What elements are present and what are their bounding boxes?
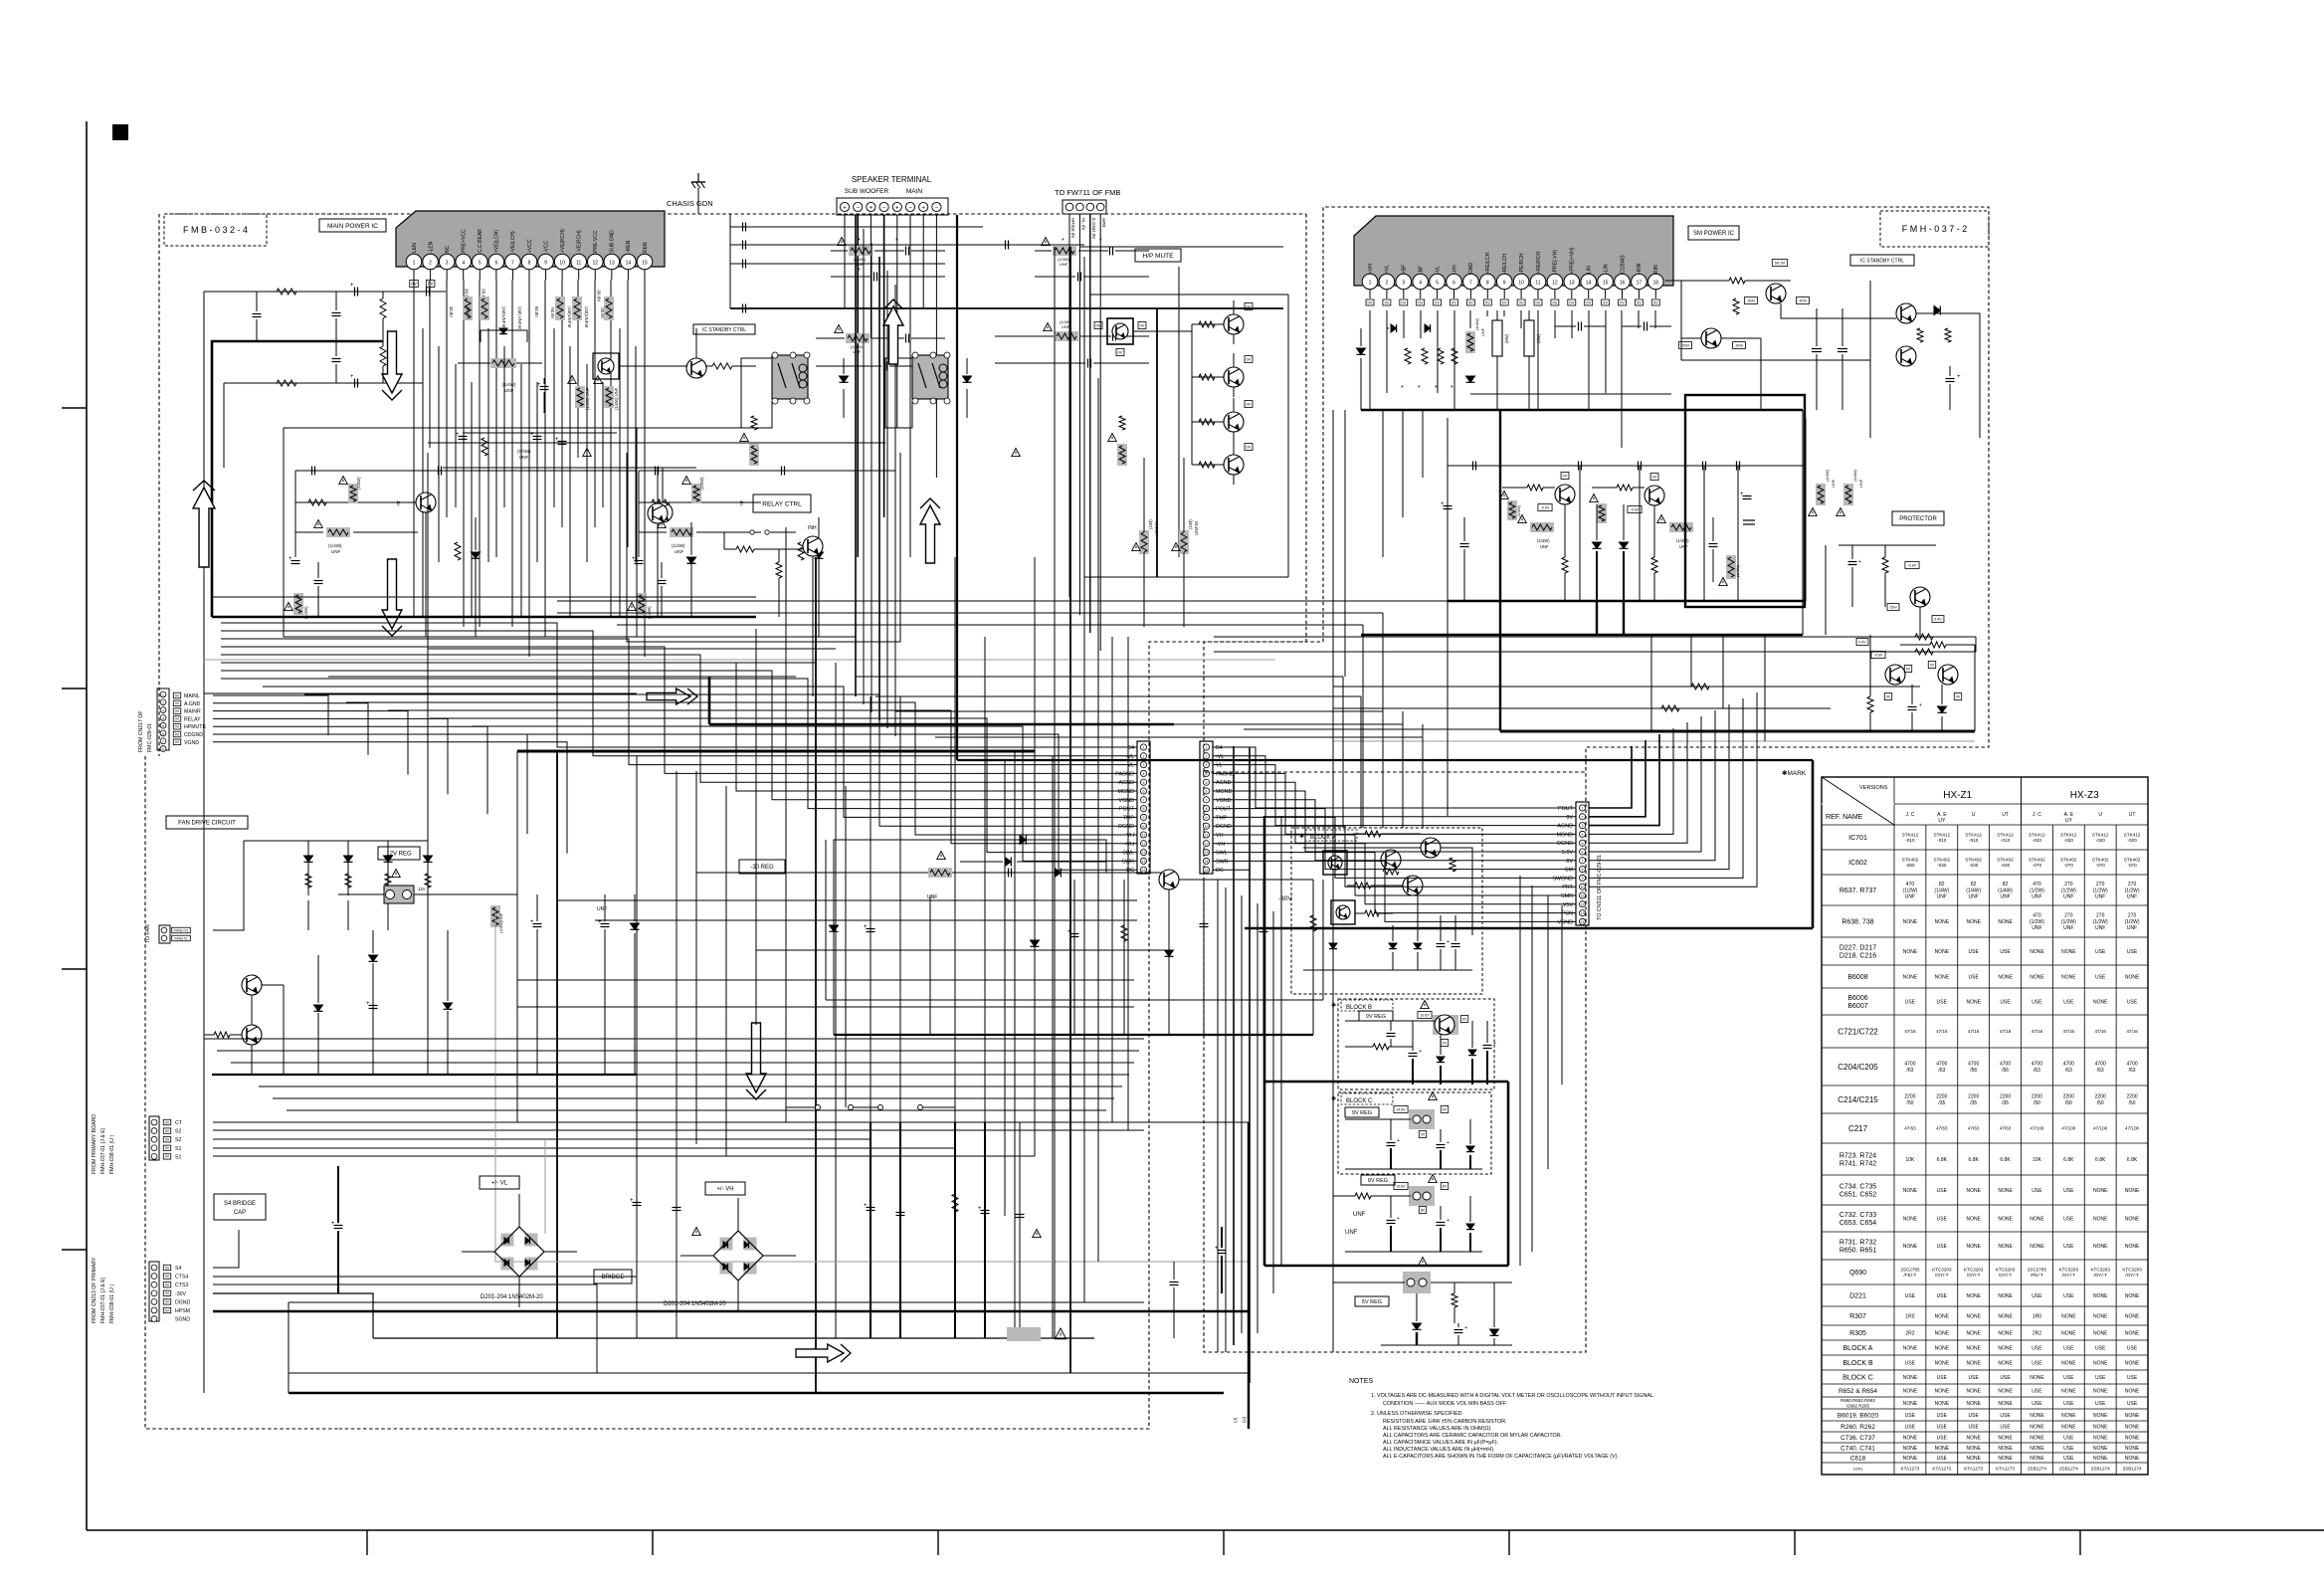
svg-text:USE: USE bbox=[2095, 974, 2106, 980]
svg-text:270: 270 bbox=[2128, 913, 2137, 919]
svg-text:10K: 10K bbox=[2033, 1157, 2042, 1163]
wire spk row3 bbox=[730, 263, 945, 265]
svg-text:NONE: NONE bbox=[2093, 1435, 2108, 1441]
svg-text:2SB1274: 2SB1274 bbox=[2059, 1467, 2078, 1472]
wire relay ctrl2 bbox=[724, 532, 736, 549]
svg-text:IC701: IC701 bbox=[1848, 835, 1867, 842]
IC602 pin 12 -PRE(-VH) bbox=[1547, 274, 1563, 290]
resistor tr1 bbox=[1729, 278, 1745, 284]
svg-text:NONE: NONE bbox=[1903, 1446, 1918, 1452]
wire IC602 pin18 drop bbox=[1654, 310, 1656, 328]
svg-text:USE: USE bbox=[1969, 1424, 1980, 1430]
svg-text:KTC3203: KTC3203 bbox=[1932, 1267, 1952, 1272]
resistor -30 r3 bbox=[1121, 925, 1127, 941]
wire hp h1 bbox=[1157, 307, 1224, 309]
wire 1W 1 bbox=[1143, 458, 1145, 532]
wire h y435 bbox=[463, 432, 617, 434]
wire blkC h bbox=[1345, 1118, 1411, 1120]
capacitor br2 bbox=[673, 1207, 681, 1209]
svg-text:DGND: DGND bbox=[1557, 841, 1573, 847]
wire mesh h4 bbox=[517, 636, 856, 638]
primary label S2 bbox=[163, 1128, 170, 1133]
wire mid h with res b bbox=[1214, 651, 1976, 653]
svg-text:+: + bbox=[331, 1221, 335, 1227]
transistor Q202 bbox=[686, 358, 706, 378]
wire thick bus y728 bbox=[709, 723, 1174, 726]
svg-text:NONE: NONE bbox=[1998, 1293, 2013, 1299]
legend grey box bbox=[1007, 1327, 1041, 1341]
zobel R+C right bbox=[1053, 246, 1076, 256]
IC602 pin 1 +VH bbox=[1362, 274, 1378, 290]
wire IC701 pin12 drop bbox=[594, 280, 596, 527]
svg-text:−: − bbox=[882, 205, 886, 211]
svg-text:0V: 0V bbox=[175, 740, 180, 744]
connector CN213 strip bbox=[149, 1262, 159, 1321]
svg-text:UNF: UNF bbox=[927, 894, 937, 900]
wire midband v6 bbox=[1447, 601, 1449, 816]
svg-text:12: 12 bbox=[1205, 842, 1209, 846]
resistor cell L r4 grey bbox=[293, 593, 303, 615]
svg-text:5: 5 bbox=[1206, 781, 1208, 785]
wire stair right 2 bbox=[1250, 756, 1576, 817]
svg-text:NONE: NONE bbox=[2061, 974, 2076, 980]
ecap blkB 3 bbox=[1483, 1045, 1492, 1047]
svg-text:47/16: 47/16 bbox=[2063, 1029, 2075, 1034]
wire bus S2b bbox=[213, 1138, 871, 1140]
wire -30 mid bbox=[756, 949, 1169, 951]
svg-text:MGND: MGND bbox=[1557, 832, 1574, 838]
capacitor blkB cap bbox=[1387, 1033, 1396, 1035]
svg-text:3: 3 bbox=[1143, 763, 1145, 767]
diode p2 bbox=[1391, 324, 1397, 332]
wire zobel2 r bbox=[995, 335, 1054, 337]
svg-text:NONE: NONE bbox=[1935, 1446, 1950, 1452]
svg-text:USE: USE bbox=[2095, 949, 2106, 955]
resistor hp mute 1 bbox=[1199, 321, 1215, 327]
ecap 8v 2 bbox=[1437, 1222, 1446, 1224]
wire QX1 c bbox=[662, 468, 664, 502]
svg-text:0V: 0V bbox=[165, 1137, 170, 1141]
svg-text:NONE: NONE bbox=[1966, 1188, 1981, 1194]
wire blkB h bbox=[1345, 1020, 1435, 1022]
svg-text:NONE: NONE bbox=[1903, 1345, 1918, 1351]
wire middrop 1 bbox=[695, 771, 697, 1144]
svg-text:(1/4W): (1/4W) bbox=[356, 477, 361, 490]
frame tick left 2 bbox=[62, 688, 87, 690]
svg-text:CCBIAS: CCBIAS bbox=[1620, 255, 1626, 274]
svg-text:0V: 0V bbox=[175, 701, 180, 705]
frame tick bottom 6 bbox=[1794, 1530, 1796, 1555]
svg-text:PCN: PCN bbox=[1562, 911, 1573, 917]
svg-text:UNF: UNF bbox=[1969, 894, 1979, 900]
svg-text:5: 5 bbox=[1582, 842, 1584, 846]
board FMH-037-2 label box bbox=[1880, 211, 1989, 247]
IC701 pin 14 -REN bbox=[621, 254, 637, 270]
transistor blkA q3 bbox=[1403, 876, 1423, 895]
svg-text:0V: 0V bbox=[175, 709, 180, 713]
zener -30 bbox=[830, 925, 839, 931]
ecap 12v b bbox=[601, 923, 610, 925]
svg-text:UNF: UNF bbox=[1831, 479, 1836, 488]
wire hp mute c 2 bbox=[1233, 353, 1235, 367]
svg-text:NONE: NONE bbox=[1998, 1456, 2013, 1462]
svg-text:(U): (U) bbox=[1242, 1416, 1247, 1423]
wire spk vleft bbox=[729, 214, 731, 308]
svg-text:✱: ✱ bbox=[1331, 1095, 1336, 1102]
wire IC701 pin4 drop bbox=[463, 280, 465, 627]
resistor cell R r2 grey bbox=[691, 484, 701, 503]
wire btr 4 bbox=[1519, 876, 1521, 1266]
svg-text:2200: 2200 bbox=[2095, 1094, 2106, 1100]
wire longv 3 bbox=[556, 751, 558, 1338]
label 9V REG B bbox=[1359, 1011, 1393, 1021]
strip2 lead -VL bbox=[1213, 755, 1250, 757]
svg-text:MGND: MGND bbox=[1216, 789, 1233, 795]
svg-text:+VCC: +VCC bbox=[527, 239, 533, 253]
IC main power IC body bbox=[396, 211, 665, 267]
capacitor C204 v bbox=[332, 312, 341, 314]
svg-text:-59V: -59V bbox=[1747, 297, 1756, 302]
svg-text:13: 13 bbox=[1142, 851, 1146, 855]
wire lowband h2 bbox=[217, 1050, 1139, 1052]
svg-text:NONE: NONE bbox=[2093, 1330, 2108, 1336]
svg-text:G201: G201 bbox=[1853, 1466, 1864, 1471]
ground chassis symbol bbox=[697, 173, 699, 182]
svg-text:-010: -010 bbox=[2001, 838, 2011, 843]
wire thick bus y755 bbox=[517, 750, 1035, 753]
svg-text:270: 270 bbox=[2064, 913, 2073, 919]
frame tick left 4 bbox=[62, 1249, 87, 1251]
svg-text:/63: /63 bbox=[1906, 1068, 1913, 1074]
wire mesh h6 bbox=[378, 662, 816, 664]
IC602 pin 7 GND bbox=[1463, 274, 1479, 290]
wire IC602 pin7 drop bbox=[1469, 310, 1471, 328]
svg-text:+/- VL: +/- VL bbox=[491, 1181, 508, 1187]
label 9V REG C bbox=[1345, 1107, 1379, 1117]
svg-text:NONE: NONE bbox=[1966, 1388, 1981, 1394]
wire cn311 right 1 bbox=[1589, 746, 1632, 808]
CN213 label HPSM bbox=[163, 1307, 170, 1312]
wire fan bottom bbox=[212, 1074, 637, 1076]
resistor fan base bbox=[214, 1032, 230, 1038]
wire cell R h535 bbox=[639, 531, 667, 533]
wire standby h3 bbox=[1665, 280, 1729, 282]
wire IC602 pin16 drop bbox=[1621, 310, 1623, 448]
wire rv 1 bbox=[1650, 635, 1652, 731]
zener p6 bbox=[1466, 376, 1475, 382]
smallbox prot f bbox=[1904, 666, 1911, 673]
svg-text:(1M) UNF.M: (1M) UNF.M bbox=[517, 306, 522, 329]
wire comb v9 bbox=[553, 328, 555, 507]
svg-text:-050: -050 bbox=[1905, 863, 1915, 868]
label S4 BRIDGE CAP box bbox=[214, 1194, 266, 1220]
wire thick bus right y412 bbox=[1361, 409, 1803, 411]
svg-text:/50: /50 bbox=[2033, 1100, 2040, 1106]
wire midband h6 bbox=[895, 710, 1383, 712]
transistor core R bbox=[1645, 486, 1664, 505]
svg-text:NONE: NONE bbox=[2030, 949, 2044, 955]
capacitor core r2 bbox=[1709, 543, 1718, 545]
svg-text:4: 4 bbox=[462, 260, 465, 266]
label +/- VH box bbox=[705, 1182, 745, 1195]
svg-text:S4 BRIDGE: S4 BRIDGE bbox=[224, 1201, 256, 1207]
svg-text:(1/4W): (1/4W) bbox=[1966, 888, 1981, 893]
svg-text:2200: 2200 bbox=[1936, 1094, 1947, 1100]
label BRIDGE box bbox=[594, 1270, 632, 1283]
svg-text:USE: USE bbox=[2063, 1345, 2074, 1351]
svg-text:BLOCK B: BLOCK B bbox=[1346, 1005, 1372, 1011]
wire blkA mesh1 bbox=[1303, 847, 1421, 849]
flow arrow up mid2 bbox=[920, 505, 940, 563]
svg-text:1. VOLTAGES ARE DC-MEASURED WI: 1. VOLTAGES ARE DC-MEASURED WITH A DIGIT… bbox=[1371, 1393, 1654, 1399]
svg-text:KTC3203: KTC3203 bbox=[1964, 1267, 1984, 1272]
CN213 label CTS3 bbox=[163, 1283, 170, 1287]
svg-text:F M B - 0 3 2 - 4: F M B - 0 3 2 - 4 bbox=[183, 225, 248, 235]
strip1 lead -VH bbox=[1084, 843, 1137, 845]
svg-text:C736. C737: C736. C737 bbox=[1840, 1435, 1875, 1442]
wire midband v7 bbox=[1362, 625, 1364, 828]
warn cell R 1 bbox=[682, 477, 691, 485]
svg-text:(1/4W)UNF: (1/4W)UNF bbox=[498, 912, 503, 933]
zobel2 left res bbox=[846, 333, 870, 343]
wire comb v8 bbox=[536, 382, 538, 562]
wire stair right 8 bbox=[1250, 809, 1576, 870]
svg-text:R637. R737: R637. R737 bbox=[1840, 888, 1876, 894]
svg-text:50.8V: 50.8V bbox=[534, 306, 539, 317]
wire stair 5 bbox=[221, 655, 1102, 782]
ecap brv1 bbox=[1170, 1282, 1179, 1283]
frame tick bottom 5 bbox=[1508, 1530, 1510, 1555]
wire stripdown v1 bbox=[1233, 876, 1235, 1345]
connector mid strip1 bbox=[1137, 741, 1150, 874]
BLOCK A dashed box bbox=[1291, 828, 1482, 994]
primary label S1 bbox=[163, 1154, 170, 1159]
svg-text:(8W): (8W) bbox=[1504, 333, 1509, 343]
svg-text:+VH: +VH bbox=[1368, 264, 1374, 274]
svg-text:82: 82 bbox=[2003, 882, 2009, 888]
wire stair right 9 bbox=[1250, 817, 1576, 878]
frame tick left 1 bbox=[62, 407, 87, 409]
wire btr 2 bbox=[1249, 747, 1251, 1383]
relay RY1 coil bbox=[799, 364, 807, 372]
wire hp bus1 bbox=[1156, 308, 1158, 577]
svg-text:ALL INDUCTANCE VALUES ARE IN µ: ALL INDUCTANCE VALUES ARE IN µH(=mH). bbox=[1383, 1447, 1495, 1453]
svg-text:NONE: NONE bbox=[1935, 1313, 1950, 1319]
svg-text:0V: 0V bbox=[1569, 299, 1574, 304]
svg-text:3: 3 bbox=[162, 708, 164, 712]
wire bridge col 3 bbox=[870, 1122, 871, 1338]
flow arrow down 1 bbox=[382, 331, 402, 393]
svg-text:NONE: NONE bbox=[2125, 1188, 2140, 1194]
svg-text:4700: 4700 bbox=[1936, 1062, 1947, 1068]
diode -30 a bbox=[1020, 836, 1026, 845]
svg-text:(1/4W) UNF: (1/4W) UNF bbox=[614, 387, 619, 410]
wire stair right 12 bbox=[1250, 844, 1576, 904]
capacitor cell L c2 bbox=[438, 467, 440, 476]
wires CN217 fanout bbox=[213, 695, 328, 735]
zener 5v b bbox=[1490, 1329, 1499, 1335]
wire IC701 pin15 drop bbox=[644, 280, 646, 657]
svg-text:-PRE(-VH): -PRE(-VH) bbox=[1553, 250, 1559, 274]
svg-text:USE: USE bbox=[1937, 1413, 1948, 1419]
svg-text:/50: /50 bbox=[1906, 1100, 1913, 1106]
svg-text:NONE: NONE bbox=[1903, 1435, 1918, 1441]
svg-text:/FE/-T: /FE/-T bbox=[2031, 1273, 2043, 1278]
strip1 lead MGND bbox=[1084, 790, 1137, 792]
svg-text:R260. R262: R260. R262 bbox=[1840, 1424, 1875, 1431]
svg-text:-60V: -60V bbox=[1799, 297, 1808, 302]
wire midband v2 bbox=[1360, 696, 1362, 828]
svg-text:0V: 0V bbox=[1247, 303, 1252, 308]
wire 5v h2 bbox=[1431, 1282, 1512, 1283]
power resistor R637 8W bbox=[1492, 320, 1502, 356]
resistor 1W UNF.M 1 bbox=[1139, 530, 1149, 554]
svg-text:TO FAN: TO FAN bbox=[145, 924, 151, 943]
capacitor core 3 bbox=[1638, 462, 1640, 471]
warn 1W 1 bbox=[1132, 543, 1141, 551]
svg-text:/OY/-T: /OY/-T bbox=[2125, 1273, 2139, 1278]
transistor prot Q1 bbox=[1910, 587, 1930, 607]
board FMH-037-2 dashed outline bbox=[1204, 207, 1989, 1352]
wire tr right v bbox=[1869, 281, 1871, 438]
svg-text:SUB WOOFER: SUB WOOFER bbox=[845, 188, 889, 195]
warn relay b bbox=[1012, 449, 1021, 457]
svg-text:KTA1273: KTA1273 bbox=[1901, 1467, 1920, 1472]
svg-text:TMP: TMP bbox=[1216, 815, 1228, 821]
IC602 pin 18 RIN bbox=[1648, 274, 1664, 290]
svg-text:4700: 4700 bbox=[2127, 1062, 2138, 1068]
svg-text:NOTES: NOTES bbox=[1349, 1378, 1373, 1385]
wire bridge col 4 bbox=[899, 1122, 901, 1338]
svg-text:+: + bbox=[1740, 492, 1744, 497]
svg-text:UNF: UNF bbox=[2127, 894, 2137, 900]
svg-text:AGND: AGND bbox=[1118, 780, 1134, 786]
svg-text:NONE: NONE bbox=[2061, 1413, 2076, 1419]
svg-text:0V: 0V bbox=[1620, 299, 1625, 304]
svg-text:FROM CN213 OF PRIMARY: FROM CN213 OF PRIMARY bbox=[92, 1257, 97, 1323]
svg-text:BLOCK B: BLOCK B bbox=[1842, 1360, 1873, 1367]
svg-text:KTC3203: KTC3203 bbox=[2090, 1267, 2110, 1272]
wire top-left h bus bbox=[204, 291, 423, 293]
wire hp mute e 1 bbox=[1233, 334, 1235, 344]
smallbox blkB a bbox=[1418, 1012, 1432, 1019]
svg-text:DGND: DGND bbox=[175, 1299, 191, 1305]
wire longv 6 bbox=[755, 629, 757, 1025]
wire hp h 580 bbox=[1084, 576, 1288, 578]
resistor pin cluster r2 bbox=[1422, 348, 1428, 364]
svg-text:0V: 0V bbox=[1435, 299, 1440, 304]
IC701 pin 2 -LEN bbox=[423, 254, 439, 270]
wire cell L v1 bbox=[294, 471, 296, 557]
regulator 12V grey bbox=[384, 886, 414, 903]
svg-text:+: + bbox=[921, 205, 925, 211]
svg-text:18: 18 bbox=[1653, 280, 1659, 286]
pin2 0V box bbox=[426, 281, 435, 288]
svg-text:ALL CAPACITANCE VALUES ARE IN: ALL CAPACITANCE VALUES ARE IN µF(P=µF). bbox=[1383, 1440, 1498, 1446]
svg-text:82: 82 bbox=[1939, 882, 1945, 888]
svg-text:-VE(RCH): -VE(RCH) bbox=[577, 230, 583, 253]
wire relay ctrl bbox=[724, 531, 749, 533]
svg-text:PROTECTOR: PROTECTOR bbox=[1899, 516, 1937, 522]
label 12V REG box bbox=[378, 847, 420, 860]
wire rv 4 bbox=[1764, 635, 1766, 741]
wire relay2 loop bbox=[885, 358, 912, 428]
svg-text:-30V: -30V bbox=[175, 1291, 186, 1297]
wire rv 2 bbox=[1690, 635, 1692, 687]
strip2 lead VL bbox=[1213, 764, 1250, 766]
wire middrop 5 bbox=[1052, 756, 1054, 1338]
svg-text:/OY/-T: /OY/-T bbox=[2093, 1273, 2107, 1278]
svg-text:*: * bbox=[1401, 385, 1404, 392]
svg-text:-RE/LCH: -RE/LCH bbox=[1502, 254, 1508, 274]
zener blkA 2 bbox=[1414, 943, 1422, 949]
svg-text:UT: UT bbox=[2129, 812, 2136, 818]
wire standby h1 bbox=[1681, 359, 1870, 361]
svg-text:9V: 9V bbox=[1566, 815, 1573, 821]
resistor core grey r bbox=[1597, 503, 1607, 523]
capacitor big mid bbox=[1743, 519, 1755, 521]
svg-text:0V: 0V bbox=[1401, 299, 1406, 304]
svg-text:0V: 0V bbox=[1563, 473, 1568, 478]
warn cell R 3 bbox=[628, 603, 637, 611]
wire cn311 right 7 bbox=[1589, 710, 1715, 861]
svg-text:✱MARK: ✱MARK bbox=[1782, 769, 1807, 777]
svg-text:+: + bbox=[870, 205, 873, 211]
svg-text:POUT: POUT bbox=[1558, 806, 1574, 812]
svg-text:DGND: DGND bbox=[1118, 824, 1134, 830]
wire blkC bottom bbox=[1345, 1168, 1482, 1170]
flow arrow right bottom bbox=[796, 1344, 844, 1362]
relay RY2 coil bbox=[939, 364, 947, 372]
resistor blkB bbox=[1373, 1044, 1389, 1050]
svg-text:USE: USE bbox=[2063, 1244, 2074, 1250]
strip2 lead DC bbox=[1213, 869, 1250, 871]
svg-text:UNF: UNF bbox=[1540, 544, 1549, 549]
svg-text:R723. R724: R723. R724 bbox=[1840, 1153, 1876, 1160]
svg-text:RELAY CTRL: RELAY CTRL bbox=[762, 500, 802, 507]
svg-text:NONE: NONE bbox=[1998, 1216, 2013, 1222]
svg-text:R652 & R654: R652 & R654 bbox=[1839, 1388, 1877, 1395]
svg-text:0V: 0V bbox=[1384, 299, 1389, 304]
wire bottom bus 2 bbox=[213, 1293, 373, 1338]
svg-text:NONE: NONE bbox=[1998, 1401, 2013, 1407]
svg-text:-0.6V: -0.6V bbox=[1631, 507, 1640, 511]
svg-text:9V: 9V bbox=[1443, 1107, 1448, 1111]
wire rv 3 bbox=[1722, 635, 1724, 708]
warn relay a bbox=[583, 449, 592, 457]
smallbox prot a bbox=[1905, 562, 1919, 569]
svg-text:USE: USE bbox=[1969, 1413, 1980, 1419]
wire trunk v4 bbox=[878, 257, 880, 720]
wire grey long bbox=[495, 913, 1249, 1262]
wire stair right 14 bbox=[1250, 861, 1576, 921]
strip1 lead PAGND bbox=[1084, 772, 1137, 774]
resistor -30 r2 bbox=[1310, 915, 1316, 931]
wire midband v4 bbox=[1402, 711, 1404, 828]
svg-text:C204/C205: C204/C205 bbox=[1838, 1063, 1878, 1072]
svg-text:UNF: UNF bbox=[2032, 894, 2041, 900]
wire bus v962 bbox=[956, 215, 958, 760]
svg-text:*: * bbox=[895, 238, 898, 245]
svg-text:NONE: NONE bbox=[1966, 1360, 1981, 1366]
svg-text:USE: USE bbox=[2063, 999, 2074, 1005]
svg-text:2200: 2200 bbox=[2000, 1094, 2011, 1100]
svg-text:7: 7 bbox=[162, 740, 164, 744]
IC701 pin 15 REN bbox=[637, 254, 653, 270]
wire IC701 pin2 drop bbox=[429, 280, 431, 448]
strip1 lead VL bbox=[1102, 764, 1137, 766]
svg-text:TMP: TMP bbox=[1123, 815, 1135, 821]
